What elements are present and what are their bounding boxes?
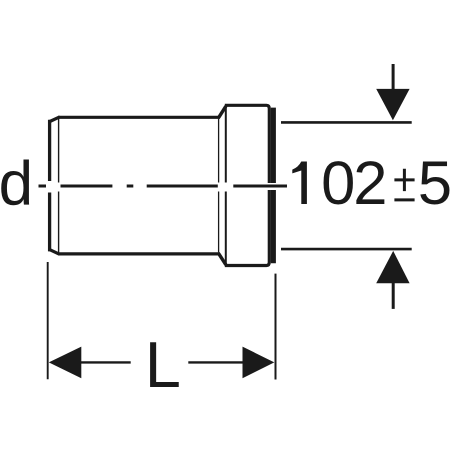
L right arrow xyxy=(243,347,275,379)
chamfer inner line xyxy=(58,119,60,253)
collar bottom edge xyxy=(225,190,269,266)
shoulder line xyxy=(218,119,220,252)
pipe top edge xyxy=(58,116,220,119)
L right extension line xyxy=(275,274,277,380)
top arrow leader xyxy=(392,64,395,90)
pipe bottom edge xyxy=(58,252,220,255)
centerline xyxy=(39,185,288,188)
L left extension line xyxy=(47,262,49,379)
L dim line left xyxy=(81,361,131,363)
svg-text:L: L xyxy=(145,328,181,401)
bottom arrow leader xyxy=(392,283,395,309)
chamfer slant bottom-left xyxy=(50,250,59,254)
svg-text:0: 0 xyxy=(321,149,355,218)
collar lip outer edge xyxy=(271,108,276,264)
collar top edge xyxy=(225,105,269,183)
digit 1 of 102 xyxy=(292,162,307,205)
svg-text:d: d xyxy=(0,149,33,218)
plus-minus sign xyxy=(394,169,414,200)
pipe left edge xyxy=(48,120,51,252)
collar left line xyxy=(225,108,227,264)
top arrow xyxy=(376,89,409,120)
shoulder slant bottom xyxy=(219,254,226,264)
bottom arrow xyxy=(376,251,409,283)
shoulder slant top xyxy=(219,107,226,117)
lower extension line xyxy=(281,248,412,251)
L dim line right xyxy=(188,361,243,363)
upper extension line xyxy=(281,121,412,124)
svg-text:2: 2 xyxy=(353,149,387,218)
L left arrow xyxy=(49,347,82,379)
svg-text:5: 5 xyxy=(418,149,450,218)
chamfer slant top-left xyxy=(50,117,59,121)
